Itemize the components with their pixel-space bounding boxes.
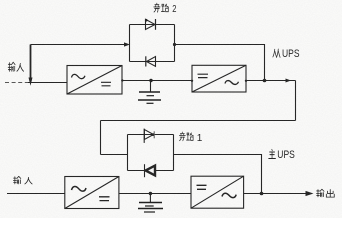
wire: U3 to U4 [119,193,191,195]
pin dot U2 out [245,80,247,82]
arrowhead down at tap junction [29,78,33,86]
junction dot main output / 主UPS [260,192,264,196]
wire: right side drop [295,81,297,121]
bypass 1 right rail [173,135,175,171]
rectifier U3 (main, AC-DC) [65,177,119,209]
wire: main output line [244,193,306,195]
wire: main input line [7,193,65,195]
wire: bypass 2 output to corner, down to slave line [175,45,265,81]
pin dot U1 out [121,79,123,81]
junction dot bypass2 right [173,43,176,46]
junction dot ground tap 2 [149,192,152,195]
AC symbol (sine) U2 [225,81,239,85]
AC symbol (sine) U1 [72,74,86,78]
diode D2 (bypass 2 reverse) [147,57,156,67]
wire: slave input line [5,82,29,84]
arrowhead right into bypass 2 [124,42,130,46]
junction dot slave output / bypass2 [263,79,267,83]
diode D1 (bypass 2 forward) [146,19,156,29]
DC symbol (=) U2 [198,74,209,77]
wire: U1 to U2 [122,80,192,82]
ground G1 [150,81,152,92]
label 输入 (main input) [13,176,32,184]
bypass 2 right rail [174,25,176,62]
bypass 2 left rail [129,25,131,62]
DC symbol (=) U1 [101,82,111,86]
label 旁路 2 [154,3,169,12]
label 主 UPS [269,149,276,158]
DC symbol (=) U4 [197,185,207,189]
label 旁路 1 [179,132,193,141]
wire: into bypass 1 left tap [101,154,128,156]
bypass 2 top branch wire [130,24,175,26]
inverter U4 (main, DC-AC) [191,176,244,208]
DC symbol (=) U3 [99,197,110,201]
wire: cross feed to bypass 1 [101,120,296,122]
inverter U2 (slave, DC-AC) [192,65,246,92]
bypass 2 bottom branch wire [130,61,175,63]
wire: bypass 1 output to corner, down to main output line [174,155,262,194]
diode D3 (bypass 1 forward) [144,130,153,140]
junction dot ground tap 1 [149,79,152,82]
pin dot U2 in [191,80,193,82]
arrowhead right on slave output [286,79,292,83]
arrowhead output [306,191,314,196]
bypass 1 left rail [127,135,129,171]
wire: slave input tap (vertical with arrow down) [30,45,32,82]
ground G2 [149,194,151,203]
rectifier U1 (slave, AC-DC) [67,66,122,95]
wire: slave output line [246,80,296,82]
label 输出 [316,189,334,197]
label 从 UPS [273,49,280,57]
wire: bypass 2 feed line [31,44,126,46]
label 输入 (slave input) [8,62,23,71]
bypass 1 top branch wire [128,134,174,136]
wire: left drop to bypass 1 [100,121,102,155]
AC symbol (sine) U4 [222,193,236,197]
AC symbol (sine) U3 [72,186,87,191]
bypass 1 bottom branch wire [128,170,174,172]
diode D4 (bypass 1 reverse) [146,166,156,176]
